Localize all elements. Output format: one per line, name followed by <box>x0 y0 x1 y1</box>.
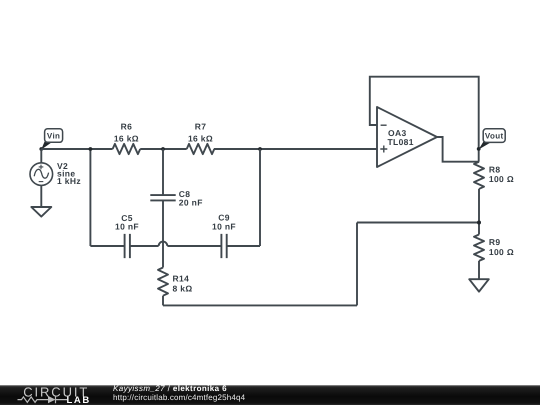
flag Vin <box>41 129 62 150</box>
wire <box>259 149 261 246</box>
svg-text:100 Ω: 100 Ω <box>489 174 514 184</box>
footer bar <box>0 385 540 405</box>
wire <box>89 149 91 246</box>
wire <box>162 296 164 306</box>
wire <box>370 77 479 162</box>
svg-text:http://circuitlab.com/c4mtfeg2: http://circuitlab.com/c4mtfeg25h4q4 <box>113 393 246 402</box>
resistor R8 <box>474 162 514 189</box>
logo schematic <box>18 396 68 403</box>
wire <box>478 261 480 279</box>
resistor R9 <box>474 235 514 261</box>
capacitor C5 <box>115 213 139 258</box>
resistor R7 <box>187 121 215 154</box>
wire <box>478 189 480 235</box>
wire <box>356 223 358 306</box>
capacitor C9 <box>212 213 236 259</box>
voltage source V2 <box>30 149 81 186</box>
flag Vout <box>479 129 506 150</box>
wire <box>227 245 260 247</box>
node Vin <box>39 147 43 151</box>
resistor R6 <box>113 121 141 154</box>
svg-text:R14: R14 <box>173 274 190 284</box>
svg-text:LAB: LAB <box>67 395 91 405</box>
wire <box>40 185 42 207</box>
svg-text:1 kHz: 1 kHz <box>57 176 81 186</box>
wire <box>162 149 164 195</box>
wire <box>163 304 357 306</box>
op-amp OA3 <box>377 107 437 167</box>
svg-text:R6: R6 <box>121 121 133 131</box>
node C <box>258 147 262 151</box>
wire <box>140 148 187 150</box>
svg-text:20 nF: 20 nF <box>179 198 203 208</box>
svg-text:8 kΩ: 8 kΩ <box>173 283 193 293</box>
node A <box>89 147 93 151</box>
wire <box>167 245 221 247</box>
wire <box>437 137 479 162</box>
svg-text:TL081: TL081 <box>388 137 414 147</box>
node B <box>161 147 165 151</box>
svg-text:R7: R7 <box>195 121 207 131</box>
wire <box>357 222 479 224</box>
wire <box>41 148 112 150</box>
wire <box>214 148 377 150</box>
svg-text:10 nF: 10 nF <box>115 222 139 232</box>
svg-text:Vout: Vout <box>485 132 504 141</box>
wire <box>130 245 159 247</box>
svg-text:Kayyissm_27 / elektronika 6: Kayyissm_27 / elektronika 6 <box>113 384 227 393</box>
wire hop <box>159 242 168 246</box>
svg-text:10 nF: 10 nF <box>212 222 236 232</box>
ground <box>469 279 489 291</box>
node D <box>477 221 481 225</box>
resistor R14 <box>158 268 193 296</box>
svg-text:16 kΩ: 16 kΩ <box>188 133 213 143</box>
wire <box>90 245 124 247</box>
wire <box>162 200 164 267</box>
svg-text:100 Ω: 100 Ω <box>489 247 514 257</box>
svg-text:16 kΩ: 16 kΩ <box>114 133 139 143</box>
svg-text:R8: R8 <box>489 164 501 174</box>
capacitor C8 <box>150 189 202 208</box>
node Vout <box>477 147 481 151</box>
svg-text:R9: R9 <box>489 237 501 247</box>
svg-text:Vin: Vin <box>47 132 60 141</box>
ground <box>31 207 51 217</box>
